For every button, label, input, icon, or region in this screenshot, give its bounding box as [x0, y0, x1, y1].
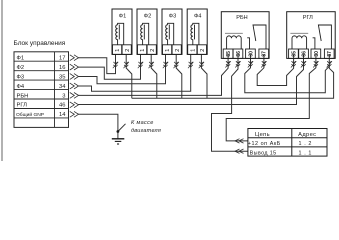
svg-text:Ф2: Ф2: [17, 65, 25, 71]
svg-text:1: 1: [140, 49, 146, 52]
svg-text:86: 86: [302, 51, 308, 57]
svg-text:Ф3: Ф3: [169, 14, 177, 20]
svg-text:двигателя: двигателя: [131, 128, 161, 134]
svg-text:34: 34: [59, 84, 66, 90]
svg-text:1: 1: [115, 49, 121, 52]
svg-text:Ф1: Ф1: [119, 14, 127, 20]
svg-text:3: 3: [62, 93, 65, 99]
svg-text:1: 1: [165, 49, 171, 52]
svg-text:30: 30: [248, 51, 254, 57]
svg-text:87: 87: [327, 51, 333, 57]
svg-text:Ф4: Ф4: [194, 14, 202, 20]
svg-text:Вывод 15: Вывод 15: [250, 151, 277, 157]
svg-text:Блок управления: Блок управления: [14, 40, 66, 47]
svg-text:1 . 1: 1 . 1: [299, 151, 313, 157]
svg-text:Ф4: Ф4: [17, 84, 25, 90]
svg-text:Общий GNP: Общий GNP: [16, 111, 44, 118]
svg-text:46: 46: [59, 103, 65, 109]
svg-text:2: 2: [175, 49, 181, 52]
svg-text:+12 оп АкБ: +12 оп АкБ: [248, 141, 281, 147]
svg-text:85: 85: [226, 51, 232, 57]
svg-text:17: 17: [59, 56, 65, 62]
svg-text:РГЛ: РГЛ: [303, 15, 313, 21]
svg-text:К массе: К массе: [131, 120, 154, 126]
svg-text:2: 2: [125, 49, 131, 52]
svg-text:16: 16: [59, 65, 65, 71]
svg-text:1: 1: [190, 49, 196, 52]
svg-text:Ф3: Ф3: [17, 74, 25, 80]
svg-text:Цепь: Цепь: [255, 132, 270, 138]
svg-text:2: 2: [200, 49, 206, 52]
svg-text:Ф2: Ф2: [144, 14, 152, 20]
svg-text:Ф1: Ф1: [17, 56, 25, 62]
svg-text:РБН: РБН: [17, 93, 29, 99]
svg-text:РГЛ: РГЛ: [17, 103, 28, 109]
svg-text:1 . 2: 1 . 2: [299, 141, 313, 147]
svg-text:РБН: РБН: [236, 15, 247, 21]
svg-text:14: 14: [59, 112, 66, 118]
svg-text:87: 87: [262, 51, 268, 57]
svg-text:85: 85: [291, 51, 297, 57]
svg-text:2: 2: [150, 49, 156, 52]
svg-text:35: 35: [59, 74, 65, 80]
svg-text:30: 30: [314, 51, 320, 57]
svg-text:86: 86: [236, 51, 242, 57]
svg-text:Адрес: Адрес: [298, 132, 316, 138]
